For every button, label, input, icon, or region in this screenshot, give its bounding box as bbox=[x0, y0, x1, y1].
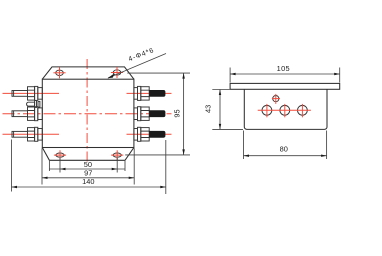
extension line terminal tip right bbox=[165, 140, 167, 194]
svg-text:105: 105 bbox=[277, 64, 290, 73]
dimension 95 arrows bbox=[182, 73, 185, 155]
extension line flange left bbox=[48, 161, 50, 171]
ground tab (left side) bbox=[27, 101, 40, 108]
ground stud circle bbox=[273, 96, 279, 102]
top flange slot right bbox=[113, 70, 121, 75]
ground stud cross bbox=[272, 94, 280, 104]
dimension 50 arrows bbox=[60, 168, 117, 170]
filter body (front view) bbox=[42, 79, 134, 147]
bottom flange slot right bbox=[113, 153, 121, 157]
svg-text:43: 43 bbox=[204, 105, 213, 113]
top slot right center cross bbox=[111, 67, 123, 78]
terminal bolt L3 bbox=[12, 127, 42, 141]
terminal bolt L2 bbox=[12, 107, 42, 121]
dimension 97 arrows bbox=[42, 177, 134, 179]
centerline top terminal row right bbox=[127, 92, 172, 94]
centerline bottom terminal row right bbox=[127, 133, 172, 135]
dimension 140 arrows bbox=[12, 186, 166, 188]
top flange slot left bbox=[56, 70, 64, 75]
dimension 95 line bbox=[183, 73, 185, 155]
terminal bolt R2 bbox=[134, 107, 166, 121]
leader arrowhead bbox=[108, 73, 115, 78]
bracket flange strip bbox=[230, 83, 340, 89]
dimension 105 line bbox=[230, 73, 340, 75]
extension line slot left bbox=[59, 158, 61, 173]
dimension 97 line bbox=[42, 177, 134, 179]
dimension 43 extension top bbox=[212, 89, 229, 91]
terminal circle 3 bbox=[298, 105, 308, 115]
centerline top terminal row left bbox=[3, 92, 60, 94]
terminal circle 1 bbox=[262, 105, 272, 115]
extension line terminal tip left bbox=[11, 140, 13, 192]
terminal bolt L1 bbox=[12, 86, 42, 100]
centerline tick circle1 bbox=[266, 104, 268, 117]
bottom mounting flange bbox=[42, 148, 134, 161]
dimension 80 line bbox=[244, 155, 327, 157]
top slot left center cross bbox=[53, 67, 65, 78]
bottom slot right center cross bbox=[111, 150, 123, 160]
terminal bolt R3 bbox=[134, 127, 166, 141]
leader line 4-holes callout bbox=[108, 54, 166, 79]
extension line body left bbox=[41, 148, 43, 184]
bracket body bbox=[244, 89, 327, 129]
centerline middle terminal row bbox=[3, 113, 172, 115]
dimension 43 arrows bbox=[219, 90, 221, 130]
svg-text:140: 140 bbox=[82, 177, 94, 186]
dimension 140 line bbox=[12, 186, 166, 188]
centerline bottom terminal row left bbox=[3, 133, 60, 135]
dimension 95 extension bottom bbox=[125, 154, 190, 156]
bottom slot left center cross bbox=[54, 150, 66, 160]
dimension 43 line bbox=[219, 90, 221, 130]
centerline tick circle3 bbox=[301, 104, 303, 117]
extension line flange right bbox=[124, 161, 126, 171]
dimension 80 arrows bbox=[244, 155, 327, 157]
dimension 80 extension right bbox=[326, 131, 328, 160]
extension line slot right bbox=[116, 158, 118, 173]
dimension 80 extension left bbox=[243, 131, 245, 160]
top mounting flange bbox=[42, 67, 134, 79]
dimension 105 extension right bbox=[339, 68, 341, 83]
centerline vertical (front view) bbox=[86, 59, 88, 163]
dimension 105 arrows bbox=[230, 73, 340, 75]
terminal bolt R1 bbox=[134, 86, 166, 100]
bottom flange slot left bbox=[56, 153, 64, 157]
extension line body right bbox=[133, 148, 135, 184]
centerline tick circle2 bbox=[284, 104, 286, 117]
dimension 43 extension bottom bbox=[212, 128, 243, 130]
dimension 50 line bbox=[49, 168, 125, 170]
dimension 105 extension left bbox=[229, 68, 231, 83]
svg-text:95: 95 bbox=[172, 109, 181, 117]
dimension 95 extension top bbox=[127, 72, 190, 74]
terminal circle 2 bbox=[280, 105, 290, 115]
centerline terminals row (top view) bbox=[258, 109, 311, 111]
svg-text:80: 80 bbox=[280, 145, 288, 154]
